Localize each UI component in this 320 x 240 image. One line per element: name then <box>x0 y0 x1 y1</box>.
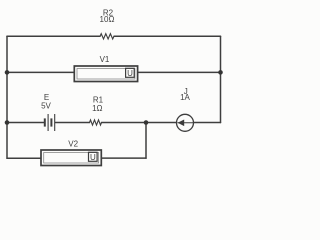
current source J circle <box>177 114 194 131</box>
svg-text:U: U <box>127 69 133 78</box>
wire R1 to current source <box>102 122 177 124</box>
battery E <box>45 114 55 131</box>
current source J arrow shaft <box>178 122 193 124</box>
svg-text:V2: V2 <box>68 140 78 149</box>
voltmeter V2 <box>41 150 101 166</box>
svg-text:U: U <box>90 153 96 162</box>
wire middle row battery left <box>7 122 44 124</box>
wire current source to right corner <box>194 122 221 124</box>
svg-text:10Ω: 10Ω <box>100 15 115 24</box>
svg-text:1Ω: 1Ω <box>92 104 102 113</box>
wire V1 row right <box>138 71 221 73</box>
node dot branch middle row <box>144 120 149 125</box>
wire right vertical <box>220 36 222 122</box>
node dot left V1 row <box>5 70 10 75</box>
wire V1 row left <box>7 71 74 73</box>
wire branch vertical at node C <box>145 123 147 159</box>
wire battery to R1 <box>55 122 89 124</box>
wire top row right of R2 <box>114 35 221 37</box>
wire top row left of R2 <box>7 35 100 37</box>
node dot right V1 row <box>218 70 223 75</box>
svg-text:5V: 5V <box>41 101 51 110</box>
svg-text:1A: 1A <box>180 93 190 102</box>
voltmeter V1 <box>74 66 137 82</box>
node dot left middle row <box>5 120 10 125</box>
wire left vertical <box>6 36 8 158</box>
resistor R1 <box>90 120 102 125</box>
resistor R2 <box>100 34 114 39</box>
svg-text:V1: V1 <box>100 55 110 64</box>
wire bottom row right of V2 <box>101 157 146 159</box>
wire bottom row left <box>7 157 41 159</box>
current source J arrowhead <box>178 120 185 127</box>
